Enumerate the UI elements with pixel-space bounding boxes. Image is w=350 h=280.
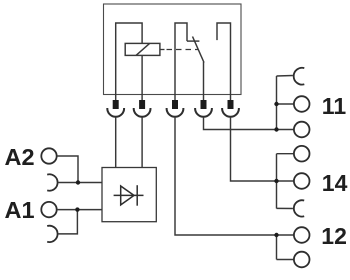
junction 14 bbox=[274, 179, 278, 183]
bus terminal 11 group bbox=[276, 76, 278, 130]
svg-text:14: 14 bbox=[322, 170, 348, 196]
terminal A2 bridge hook bbox=[47, 174, 57, 190]
svg-text:A1: A1 bbox=[5, 197, 35, 223]
wire A1 hook to node bbox=[58, 210, 78, 234]
bridge hook above 11 bbox=[294, 68, 305, 85]
bus terminal 12 group bbox=[276, 235, 278, 260]
junction 11b bbox=[274, 127, 278, 131]
pin 2 plug bbox=[134, 95, 151, 117]
bridge hook below 14 bbox=[294, 200, 304, 216]
pin 5 plug bbox=[222, 95, 239, 117]
pin 1 plug bbox=[107, 95, 124, 117]
terminal 12 socket bbox=[294, 227, 310, 243]
wire pin4 to terminal 11 bus bbox=[204, 117, 277, 130]
wire A1 to box bbox=[57, 209, 102, 211]
stub upper circle 14 group bbox=[277, 153, 294, 155]
wire A2 hook to box bbox=[58, 182, 102, 184]
junction A2 bbox=[76, 180, 80, 184]
terminal 14 socket bbox=[294, 173, 310, 189]
pin 4 plug bbox=[195, 95, 212, 117]
junction A1 bbox=[75, 207, 79, 211]
svg-text:11: 11 bbox=[322, 93, 347, 119]
junction 11 bbox=[274, 102, 278, 106]
wire lever to pin 4 bbox=[203, 62, 205, 95]
stub circle 12 bbox=[277, 234, 294, 236]
wire pin2 to suppressor box bbox=[141, 117, 143, 167]
coil K1 bbox=[125, 43, 160, 55]
stub hook 14 bbox=[277, 207, 293, 209]
terminal 11b socket bbox=[294, 122, 310, 138]
diode V1 bbox=[114, 185, 144, 206]
contact NO fixed terminal (to pin 5) bbox=[217, 23, 231, 95]
wire coil bottom bbox=[141, 55, 143, 94]
svg-text:12: 12 bbox=[321, 223, 347, 249]
junction 12 bbox=[274, 233, 278, 237]
stub circle 14 bbox=[277, 180, 294, 182]
terminal A1 socket bbox=[41, 202, 56, 217]
contact lever (common, to pin 4) bbox=[193, 37, 205, 63]
contact NC fixed terminal (to pin 3) bbox=[175, 23, 187, 95]
bus terminal 14 group bbox=[276, 154, 278, 209]
terminal 11 socket bbox=[294, 96, 310, 112]
terminal 12b socket bbox=[294, 252, 310, 268]
stub lower circle 12 group bbox=[277, 259, 294, 261]
stub hook 11 bbox=[277, 75, 293, 78]
terminal A2 socket bbox=[41, 148, 56, 163]
wire pin3 to terminal 12 bus bbox=[175, 117, 277, 235]
pin 3 plug bbox=[167, 95, 184, 117]
stub lower circle 11 group bbox=[277, 129, 294, 131]
wire coil left loop bbox=[116, 23, 142, 95]
mechanical link dashed bbox=[160, 49, 198, 51]
relay K1 outline bbox=[104, 4, 242, 95]
wire pin5 to terminal 14 bus bbox=[231, 117, 277, 181]
terminal A1 bridge hook bbox=[47, 226, 57, 242]
wire A2 to node bbox=[57, 156, 78, 183]
contact seat bbox=[187, 40, 199, 42]
wire pin1 to suppressor box bbox=[115, 117, 117, 167]
terminal 14a socket bbox=[294, 146, 310, 162]
suppressor box U1 bbox=[102, 168, 156, 222]
svg-text:A2: A2 bbox=[5, 144, 35, 170]
stub circle 11 bbox=[277, 103, 294, 105]
